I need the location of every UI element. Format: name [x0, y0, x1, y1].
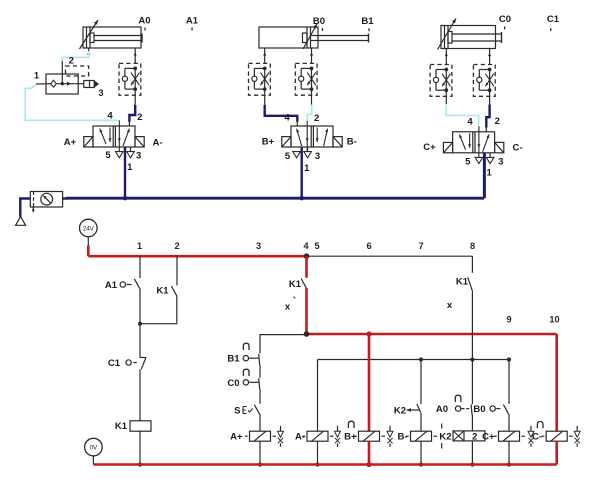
valve flow path 4-5 (right cell, through) [478, 126, 480, 157]
svg-text:B1: B1 [227, 354, 240, 365]
energized indicator above C- [537, 422, 543, 429]
solenoid coil B+ [359, 431, 380, 441]
branch to column 3 (de-energized) [260, 335, 307, 354]
svg-text:10: 10 [549, 315, 559, 325]
pilot C+ [443, 142, 452, 152]
valve flow path 4-5 (right cell) [316, 128, 318, 143]
svg-text:B+: B+ [262, 137, 275, 148]
wire cyl B left port [264, 48, 266, 63]
exhaust port 3 silencer triangle [304, 152, 312, 158]
cylinder B cushioning arrow [303, 24, 317, 49]
cylinder A piston rod [94, 35, 142, 37]
svg-text:7: 7 [418, 241, 423, 251]
svg-text:A0: A0 [138, 16, 150, 27]
quick exhaust check diamond [51, 80, 57, 87]
valve A port 1 wire (supply) [124, 147, 126, 198]
svg-text:4: 4 [284, 113, 290, 124]
exhaust port 5 silencer triangle [116, 152, 124, 158]
svg-text:1: 1 [34, 71, 40, 82]
svg-text:K1: K1 [289, 279, 302, 290]
wire flowctrl C-left to valve C port 4 (vented, cyan) [445, 90, 447, 104]
24V supply source [80, 219, 98, 237]
valve flow path 1-2 (right cell) [483, 134, 489, 151]
svg-text:A1: A1 [186, 16, 199, 27]
svg-text:A+: A+ [230, 432, 243, 443]
pilot B- [333, 137, 342, 147]
svg-text:1: 1 [127, 162, 133, 173]
contact B1 (NO, actuated/closed) [243, 343, 249, 350]
supply riser to valve C [483, 153, 486, 198]
wire flowctrl C-right to valve C port 2 (pressurized) [489, 90, 491, 104]
svg-text:A1: A1 [105, 280, 118, 291]
valve flow path 2-3 (left cell, through) [306, 121, 308, 152]
svg-text:K2: K2 [394, 406, 406, 417]
svg-text:C0: C0 [227, 378, 239, 389]
quick exhaust valve body [46, 74, 78, 94]
pilot B+ [282, 137, 291, 147]
flow control valve C-right [473, 65, 495, 97]
energized indicator above B+ [348, 421, 354, 428]
valve B port 1 wire (supply) [301, 147, 303, 198]
svg-text:K1: K1 [456, 277, 469, 288]
valve flow path 1-4 (left cell) [100, 129, 106, 144]
svg-text:K1: K1 [156, 286, 169, 297]
quick exhaust port 2 wire [61, 61, 63, 84]
svg-text:2: 2 [69, 55, 74, 66]
solenoid coil C+ [499, 431, 520, 441]
valve body C+/C- [453, 132, 495, 153]
port 3 stub [489, 153, 491, 158]
svg-text:B-: B- [397, 432, 407, 443]
0V supply source [85, 438, 103, 456]
quick exhaust port 3 silencer [78, 83, 84, 85]
svg-text:B1: B1 [361, 16, 374, 27]
0V rail [93, 463, 556, 466]
svg-text:8: 8 [470, 241, 475, 251]
svg-text:4: 4 [107, 111, 113, 122]
svg-text:2: 2 [174, 241, 179, 251]
node col4 top rail [304, 253, 310, 259]
svg-text:1: 1 [137, 241, 142, 251]
wire col1 mid [139, 288, 141, 323]
valve body A+/A- [93, 126, 135, 147]
wire cyl B right port [311, 48, 313, 63]
quick exhaust flow arrow [67, 82, 72, 86]
supply line to service unit [63, 197, 67, 199]
contact C0 (NO, actuated/closed) [243, 369, 249, 376]
svg-text:A0: A0 [436, 404, 448, 415]
valve flow path 4-5 (right cell, through) [118, 120, 120, 151]
wire cyl A left port [88, 48, 90, 52]
svg-text:B-: B- [347, 137, 357, 148]
quick exhaust port 1 wire [36, 83, 46, 85]
svg-text:3: 3 [98, 88, 103, 99]
svg-text:A-: A- [295, 432, 305, 443]
svg-text:`: ` [293, 296, 297, 308]
quick exhaust pilot dashed box [66, 66, 89, 76]
svg-text:A+: A+ [64, 137, 77, 148]
cylinder A piston [86, 27, 88, 48]
service unit drain arrow [32, 208, 34, 213]
wire flowctrl B-right to valve B port 2 (vented, cyan) [311, 89, 313, 104]
svg-text:S: S [234, 406, 240, 417]
wire col2 to node [140, 322, 177, 324]
pilot A- [135, 137, 144, 147]
cylinder C piston [444, 26, 446, 49]
wire K1 coil to 0V rail [139, 431, 141, 464]
junction valve B supply [300, 196, 304, 200]
24V rail (energized) [88, 255, 307, 258]
svg-text:C-: C- [512, 143, 522, 154]
valve flow path 2-3 (left cell) [109, 128, 111, 143]
pilot C- [495, 142, 504, 152]
svg-text:C0: C0 [499, 14, 511, 25]
node col1/col2 [138, 322, 142, 326]
flow control valve A-right [119, 63, 141, 95]
wire flowctrl A to valve A port 2 (pressurized) [134, 89, 136, 105]
flow control valve B-right [295, 63, 317, 95]
cylinder C body [441, 26, 496, 49]
cylinder B body [259, 27, 318, 48]
bus 2 (energized rail) [307, 333, 557, 336]
svg-text:6: 6 [366, 241, 371, 251]
valve flow path 2-3 (left cell) [469, 133, 471, 148]
port 3 stub [130, 147, 132, 152]
wire cyl C right port [489, 49, 491, 65]
solenoid coil A- [307, 431, 328, 441]
svg-text:C+: C+ [423, 142, 436, 153]
svg-text:x: x [447, 300, 453, 311]
junction valve A supply [123, 196, 127, 200]
valve flow path 1-2 (right cell) [123, 129, 129, 146]
pilot A+ [84, 137, 93, 147]
exhaust port 3 silencer triangle [486, 157, 494, 163]
svg-text:2: 2 [137, 112, 142, 123]
cylinder A body [83, 27, 141, 48]
wire port1 to valve A port 4 (vented, cyan) [25, 84, 119, 120]
flow control valve B-left [249, 63, 271, 95]
cylinder B piston rod [311, 35, 369, 37]
svg-text:2: 2 [495, 116, 500, 127]
wire cyl C left port [445, 49, 447, 65]
svg-text:3: 3 [256, 241, 261, 251]
svg-text:B0: B0 [473, 404, 485, 415]
svg-text:3: 3 [315, 151, 320, 162]
svg-text:B0: B0 [313, 16, 325, 27]
svg-text:1: 1 [487, 168, 493, 179]
svg-text:A-: A- [152, 138, 162, 149]
valve flow path 1-2 (right cell) [324, 129, 328, 146]
valve flow path 1-4 (left cell) [297, 129, 302, 146]
wire col1 top [139, 256, 141, 278]
24V rail continuation (de-energized) [307, 255, 473, 257]
solenoid coil A+ [250, 431, 271, 441]
svg-text:3: 3 [498, 157, 503, 168]
svg-text:24V: 24V [83, 226, 95, 233]
svg-text:5: 5 [285, 151, 291, 162]
cylinder B piston [306, 27, 308, 48]
svg-text:4: 4 [303, 241, 309, 251]
valve C port 1 wire (supply) [483, 153, 485, 198]
solenoid coil C- [546, 431, 567, 441]
svg-text:C1: C1 [547, 14, 560, 25]
svg-text:4: 4 [467, 116, 473, 127]
cylinder A cushioning arrow [80, 20, 99, 49]
svg-text:C1: C1 [108, 358, 121, 369]
exhaust port 3 silencer triangle [127, 152, 135, 158]
flow control valve C-left [430, 65, 452, 97]
svg-text:B+: B+ [344, 432, 357, 443]
cylinder C piston rod [452, 33, 502, 35]
svg-text:x: x [285, 302, 291, 313]
svg-text:2: 2 [314, 113, 319, 124]
bus3 corner down at col9 [508, 360, 510, 404]
main air supply line [66, 197, 484, 200]
svg-text:0V: 0V [90, 445, 98, 452]
valve flow path 1-4 (left cell) [459, 134, 465, 149]
solenoid coil B- [411, 431, 432, 441]
wire flowctrl B-left to valve B port 4 (pressurized) [264, 89, 266, 105]
bus 3 (control bus) [318, 359, 510, 361]
svg-text:C+: C+ [482, 432, 495, 443]
valve body B+/B- [291, 126, 333, 147]
port 3 stub [307, 147, 309, 152]
svg-text:C-: C- [532, 432, 542, 443]
compressed air service unit [30, 192, 62, 208]
exhaust port 5 silencer triangle [293, 152, 301, 158]
contact A0 (NO, actuated/closed) [455, 395, 461, 402]
cylinder C cushioning arrow [438, 19, 457, 50]
svg-text:K2: K2 [439, 432, 451, 443]
svg-text:9: 9 [506, 315, 511, 325]
bus3 corner down to A- [317, 360, 319, 432]
svg-text:5: 5 [314, 241, 319, 251]
svg-text:5: 5 [465, 156, 471, 167]
svg-text:1: 1 [304, 163, 310, 174]
exhaust port 5 silencer triangle [475, 157, 483, 163]
wire col1 to K1 coil [139, 369, 141, 421]
svg-text:K1: K1 [115, 421, 128, 432]
air supply source triangle [20, 199, 30, 217]
svg-text:3: 3 [136, 150, 141, 161]
wire cyl A right port [134, 48, 136, 63]
svg-text:5: 5 [105, 150, 111, 161]
